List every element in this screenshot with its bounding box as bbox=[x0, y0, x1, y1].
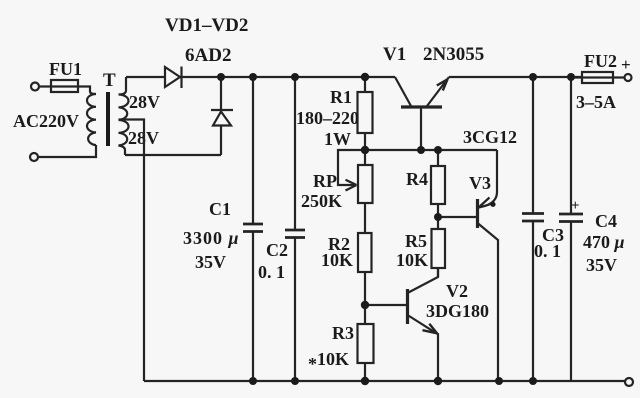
V3 base wire bbox=[438, 216, 476, 218]
V3 emitter arrows bbox=[479, 198, 490, 208]
wire bbox=[39, 87, 90, 92]
capacitor C3 bbox=[532, 77, 534, 381]
wire top rail mid bbox=[183, 76, 395, 78]
transformer T primary winding bbox=[87, 92, 96, 146]
V3 collector bbox=[478, 223, 499, 381]
svg-text:FU1: FU1 bbox=[49, 59, 82, 79]
node C2 top bbox=[291, 73, 299, 81]
svg-text:C1: C1 bbox=[209, 199, 231, 219]
resistor R3 bbox=[358, 324, 374, 363]
transistor V3 3CG12 bbox=[479, 150, 498, 208]
svg-text:3300 μ: 3300 μ bbox=[183, 228, 240, 248]
svg-text:FU2: FU2 bbox=[584, 51, 617, 71]
node R3 bottom bbox=[361, 377, 369, 385]
resistor R5 bbox=[432, 229, 446, 268]
transistor V2 3DG180 bbox=[365, 304, 406, 306]
svg-text:V2: V2 bbox=[446, 281, 468, 301]
svg-text:V3: V3 bbox=[469, 173, 491, 193]
capacitor C4 bbox=[570, 77, 572, 380]
svg-text:3–5A: 3–5A bbox=[576, 92, 616, 112]
terminal input bottom bbox=[30, 153, 38, 161]
transformer core bbox=[106, 92, 110, 146]
svg-text:470 μ: 470 μ bbox=[583, 232, 625, 252]
svg-text:6AD2: 6AD2 bbox=[185, 45, 231, 66]
svg-text:3DG180: 3DG180 bbox=[426, 301, 489, 321]
transformer T secondary winding lower bbox=[119, 120, 129, 155]
terminal input top bbox=[31, 83, 39, 91]
svg-text:R3: R3 bbox=[332, 323, 354, 343]
resistor R1 bbox=[358, 92, 373, 133]
node C3 bottom bbox=[529, 377, 537, 385]
svg-text:R1: R1 bbox=[330, 87, 352, 107]
svg-text:0. 1: 0. 1 bbox=[534, 241, 561, 261]
svg-text:R4: R4 bbox=[406, 169, 428, 189]
terminal output minus bbox=[625, 378, 633, 386]
svg-text:C4: C4 bbox=[595, 211, 617, 231]
svg-text:180–220: 180–220 bbox=[296, 108, 359, 128]
wire RP to R2 bbox=[364, 203, 366, 233]
node V1 base bbox=[417, 146, 425, 154]
svg-text:28V: 28V bbox=[129, 92, 160, 112]
svg-text:10K: 10K bbox=[321, 250, 353, 270]
node C1 bottom bbox=[249, 377, 257, 385]
svg-text:35V: 35V bbox=[195, 252, 226, 272]
terminal output plus bbox=[625, 74, 632, 81]
node R1 bottom / RP bbox=[361, 146, 369, 154]
fuse FU1 bbox=[51, 80, 78, 92]
wire bbox=[38, 145, 96, 157]
V1 emitter arrow bbox=[437, 79, 448, 90]
node R1 top bbox=[361, 73, 369, 81]
svg-text:2N3055: 2N3055 bbox=[423, 44, 484, 65]
node R4 top bbox=[434, 146, 442, 154]
svg-text:R5: R5 bbox=[405, 231, 427, 251]
node C2 bottom bbox=[291, 377, 299, 385]
node C3 top bbox=[529, 73, 537, 81]
node R2 bottom / V2 base bbox=[361, 301, 369, 309]
svg-text:3CG12: 3CG12 bbox=[463, 127, 517, 147]
potentiometer RP body bbox=[358, 165, 373, 203]
svg-text:10K: 10K bbox=[396, 250, 428, 270]
wire mid rail bbox=[365, 149, 497, 151]
capacitor C2 bbox=[294, 77, 296, 381]
V1 base wire bbox=[420, 107, 422, 150]
diode VD1 bbox=[165, 67, 183, 89]
potentiometer RP wiper wire bbox=[338, 150, 365, 185]
resistor R4 bbox=[431, 166, 445, 204]
V2 collector bbox=[408, 268, 439, 293]
node C4 top bbox=[567, 73, 575, 81]
wire bottom rail bbox=[144, 380, 625, 382]
node VD2 top rail bbox=[217, 73, 225, 81]
node V2 emitter bottom bbox=[434, 377, 442, 385]
capacitor C1 bbox=[252, 77, 254, 381]
svg-text:RP: RP bbox=[313, 171, 337, 191]
svg-text:+: + bbox=[621, 55, 631, 74]
svg-text:V1: V1 bbox=[383, 44, 406, 65]
svg-text:35V: 35V bbox=[586, 255, 617, 275]
svg-text:250K: 250K bbox=[301, 191, 342, 211]
RP arrow bbox=[346, 180, 357, 191]
node R4 R5 junction bbox=[434, 213, 442, 221]
svg-text:1W: 1W bbox=[324, 129, 351, 149]
svg-text:0. 1: 0. 1 bbox=[258, 262, 285, 282]
svg-text:T: T bbox=[103, 70, 116, 91]
wire top rail right bbox=[449, 76, 582, 78]
fuse FU2 bbox=[582, 72, 613, 83]
node C1 top bbox=[249, 73, 257, 81]
V2 emitter arrow bbox=[423, 324, 438, 334]
resistor R2 bbox=[358, 233, 372, 272]
wire center tap bbox=[119, 120, 145, 382]
svg-text:AC220V: AC220V bbox=[13, 111, 79, 131]
V2 emitter bbox=[408, 315, 439, 381]
svg-text:+: + bbox=[571, 198, 580, 214]
diode VD2 bbox=[211, 77, 233, 155]
wire top rail left bbox=[126, 76, 165, 78]
node V3 collector bottom bbox=[495, 377, 503, 385]
svg-text:C2: C2 bbox=[266, 240, 288, 260]
transistor V1 2N3055 bbox=[395, 77, 449, 107]
svg-text:VD1–VD2: VD1–VD2 bbox=[165, 15, 248, 36]
wire lower secondary to VD2 anode bbox=[125, 154, 221, 156]
transformer T secondary winding upper bbox=[119, 77, 129, 120]
